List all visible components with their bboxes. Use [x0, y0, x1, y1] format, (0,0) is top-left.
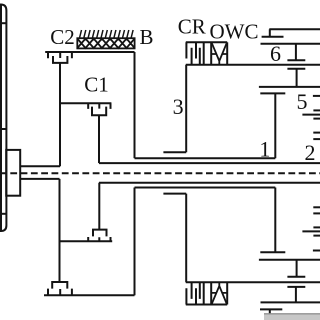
- brake band B cross hatch: [77, 39, 134, 48]
- lower gear 6 cap: [287, 286, 305, 288]
- clutch C1 plate line: [60, 102, 111, 104]
- wire: lower member 3 vertical: [185, 194, 187, 283]
- wire: member line at 87 (top right): [259, 86, 320, 88]
- svg-text:5: 5: [297, 89, 308, 114]
- clutch C2 plate line: [45, 51, 134, 53]
- wire: step line S1 (top right): [269, 28, 320, 30]
- svg-text:C2: C2: [50, 25, 75, 49]
- lower step cap S2: [260, 308, 282, 310]
- clutch C2 plate ticks: [48, 52, 72, 58]
- lower clutch C1 hub cup: [93, 230, 107, 237]
- svg-text:1: 1: [259, 137, 270, 162]
- wire: lower member 3 hook: [163, 193, 186, 195]
- gray band top edge: [264, 313, 320, 315]
- lower clutch CR plates hanging: [192, 282, 200, 299]
- lower clutch CR divider: [210, 282, 212, 304]
- one-way clutch OWC sprag V: [211, 43, 227, 65]
- wire: member line A lower: [99, 182, 320, 184]
- gear 6 lower stem: [296, 69, 298, 87]
- wire: lower ring member line: [261, 301, 320, 303]
- clutch CR hanging plates: [186, 42, 203, 65]
- gear stack stub e: [313, 132, 320, 134]
- lower clutch CR plates rising: [186, 282, 203, 304]
- lower OWC box right edge: [226, 282, 228, 304]
- clutch CR rising plates: [192, 48, 200, 65]
- wire: vertical feed to lower clutches: [59, 179, 61, 282]
- svg-text:3: 3: [173, 94, 184, 119]
- wire: C1 stem down to line A: [98, 115, 100, 163]
- clutch C1 hub cup: [92, 107, 106, 116]
- wire: member line A (top): [99, 162, 320, 164]
- svg-text:6: 6: [270, 41, 281, 66]
- wire: lower member line B: [135, 187, 276, 189]
- gray cropped band: [264, 314, 320, 320]
- gear 1 cap: [260, 92, 285, 94]
- input shaft top line: [20, 165, 60, 167]
- wire: band drum vertical (top): [134, 52, 136, 158]
- svg-text:C1: C1: [84, 73, 109, 97]
- input shaft bottom line: [20, 178, 59, 180]
- wire: lower C1 stem: [98, 183, 100, 230]
- wire: step riser: [269, 29, 271, 36]
- lower OWC sprag wedge: [211, 282, 227, 303]
- housing divider 2: [0, 128, 6, 130]
- wire: step line S2: [262, 36, 284, 38]
- housing divider 3: [0, 213, 6, 215]
- wire: drum line under CR/OWC (top long member): [186, 64, 320, 66]
- wire: lower band drum vertical: [134, 188, 136, 296]
- wire: lower drum line over CR/OWC: [186, 281, 320, 283]
- clutch C2 hub cup: [53, 56, 67, 63]
- lower clutch C1 plate line: [60, 240, 113, 242]
- lower gear 6 upper cap: [287, 276, 305, 278]
- wire: gear 1 stem: [274, 93, 276, 158]
- lower clutch CR bottom plate line: [186, 304, 227, 306]
- lower clutch C2 plate line: [44, 294, 135, 296]
- lower gear stack stub a: [313, 250, 320, 252]
- wire: lower gear 1 stem: [274, 188, 276, 253]
- clutch CR right divider: [210, 42, 212, 65]
- gear stack stub f: [313, 138, 320, 140]
- gear stack stub a: [313, 95, 320, 97]
- wire: vertical feed to C2/C1 (top): [59, 63, 61, 167]
- clutch C1 plate ticks: [88, 103, 110, 109]
- svg-text:OWC: OWC: [210, 20, 259, 44]
- lower gear stack stub e: [313, 212, 320, 214]
- lower clutch C2 hub cup: [52, 282, 67, 289]
- gear stack stub c: [302, 114, 320, 116]
- wire: member 3 vertical: [185, 65, 187, 153]
- lower gear 6 upper stem: [296, 260, 298, 277]
- gear 6 upper stem: [295, 44, 297, 60]
- housing divider 1: [0, 22, 6, 24]
- one-way clutch OWC box right edge: [226, 42, 228, 65]
- lower gear stack stub f: [313, 206, 320, 208]
- lower gear stack stub b: [313, 235, 320, 237]
- wire: lower member line at 260: [259, 259, 320, 261]
- lower clutch C2 plate ticks: [48, 289, 72, 296]
- brake band B box: [77, 38, 134, 48]
- lower gear 6 stem: [295, 287, 297, 303]
- svg-text:2: 2: [305, 140, 316, 165]
- lower step riser: [269, 309, 271, 314]
- svg-text:B: B: [139, 25, 153, 49]
- lower clutch C1 plate ticks: [88, 237, 110, 241]
- lower gear 1 cap: [260, 251, 285, 253]
- gear 6 upper cap: [287, 59, 305, 61]
- gear stack stub d: [313, 118, 320, 120]
- lower gear stack stub c: [302, 230, 320, 232]
- input damper rectangle: [6, 150, 20, 196]
- dashed axis centerline: [0, 172, 320, 174]
- svg-text:CR: CR: [178, 15, 206, 39]
- clutch CR top plate line: [186, 41, 227, 43]
- lower gear stack stub d: [313, 226, 320, 228]
- gear stack stub b: [313, 109, 320, 111]
- housing left capsule outline: [1, 5, 6, 232]
- brake band B hatching strokes: [80, 30, 134, 38]
- wire: member line B to gear 1: [135, 157, 276, 159]
- gear 6 lower cap: [287, 68, 305, 70]
- wire: member 3 hook: [163, 151, 186, 153]
- wire: ring member line (top right): [261, 43, 320, 45]
